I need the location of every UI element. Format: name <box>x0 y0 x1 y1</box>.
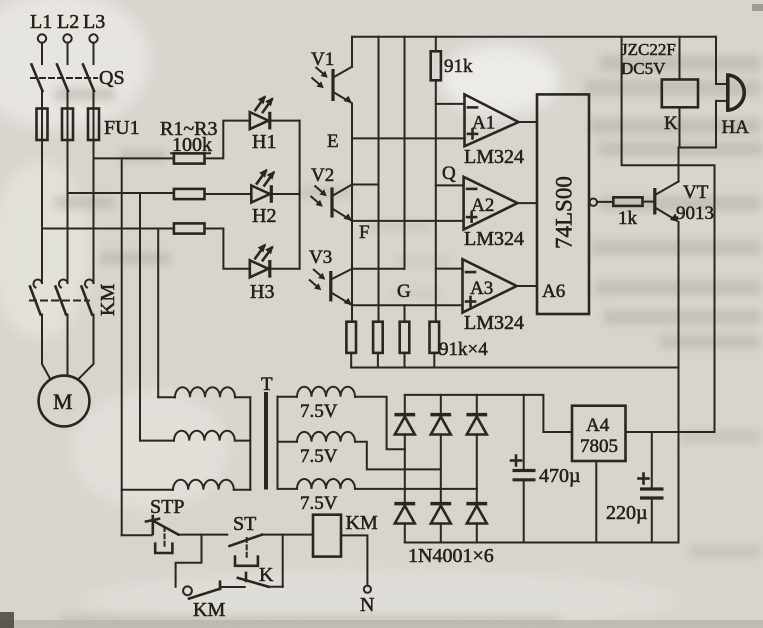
phototransistor V1 <box>312 67 353 103</box>
svg-text:H3: H3 <box>250 281 274 303</box>
svg-text:H1: H1 <box>252 131 276 153</box>
corner smudge <box>0 612 14 628</box>
wire QS pole 2 to fuse <box>67 91 69 140</box>
switch QS pole 1 blade <box>32 65 43 92</box>
button STP (stop, NC) <box>122 516 179 553</box>
svg-text:T: T <box>261 374 273 395</box>
fuse FU1 pole 1 <box>37 109 48 141</box>
node L3 terminal <box>83 11 105 43</box>
wire V2 collector jog <box>352 184 379 186</box>
svg-text:G: G <box>397 281 411 302</box>
svg-text:A1: A1 <box>472 112 495 133</box>
wire bubble to 1k <box>597 201 613 203</box>
wire L2 terminal to QS <box>67 43 69 64</box>
svg-text:ST: ST <box>233 513 256 535</box>
svg-text:FU1: FU1 <box>104 117 140 139</box>
wire KM contact 1 to motor <box>42 315 51 380</box>
wire branch 2 (L2 tap to R2) <box>68 192 174 194</box>
wire L1 terminal to QS <box>41 43 43 64</box>
wire H2 cathode to common bus <box>271 193 299 195</box>
svg-text:STP: STP <box>150 496 184 518</box>
op-amp A2 <box>464 177 518 230</box>
svg-text:V2: V2 <box>311 165 334 186</box>
wire node F to A2 + input <box>352 220 464 222</box>
contactor KM main contact 1 hook <box>33 280 42 288</box>
resistor R7 (91k pulldown 3) <box>400 322 410 368</box>
contactor KM main contact 3 blade <box>82 287 93 315</box>
svg-text:9013: 9013 <box>676 203 714 224</box>
wire bus line 1 (rail to V1 collector) <box>351 37 353 67</box>
wire branch 3 (L1 tap to R3) <box>42 228 174 230</box>
IC 74LS00 (NAND gate block) <box>537 94 589 314</box>
svg-text:KM: KM <box>97 284 119 316</box>
wire K/HA bottom junction <box>679 147 717 149</box>
wire holding branch (down-left-down) <box>176 535 202 587</box>
resistor R9 1k (base) <box>613 197 642 206</box>
value label 100k (underlined) <box>171 134 212 156</box>
IC output inverter bubble <box>590 199 597 206</box>
wire node E to A1 + input <box>352 137 465 139</box>
resistor R3 <box>174 223 205 233</box>
op-amp A3 minus input stub <box>436 268 463 270</box>
transformer T secondary winding 2 <box>278 432 356 442</box>
svg-text:L3: L3 <box>83 11 105 33</box>
svg-text:470µ: 470µ <box>539 465 581 487</box>
svg-text:1N4001×6: 1N4001×6 <box>408 545 494 567</box>
wire R1 to H1 anode <box>205 121 250 159</box>
wire bus line 4 upper (rail to 91k) <box>435 37 437 52</box>
wire VT emitter down to ground rail <box>678 222 680 543</box>
LED H1 <box>250 95 274 129</box>
phototransistor V3 <box>309 269 352 306</box>
fuse FU1 pole 2 <box>62 109 73 141</box>
svg-text:220µ: 220µ <box>606 502 648 524</box>
svg-text:HA: HA <box>722 117 750 138</box>
capacitor C2 220u <box>639 432 664 543</box>
op-amp A1 minus input stub <box>436 103 465 105</box>
svg-text:A2: A2 <box>471 195 494 216</box>
diode VD2 (top row 1N4001) <box>430 395 451 504</box>
svg-text:A4: A4 <box>586 415 610 436</box>
wire drop 1 to primary winding 3 and STP <box>121 158 123 535</box>
svg-text:KM: KM <box>193 599 225 621</box>
contact KM auxiliary (NO, self-hold) <box>183 582 245 599</box>
resistor R8 (91k pulldown 4) <box>430 322 440 368</box>
svg-text:E: E <box>327 131 339 152</box>
wire branch 1 (L3 tap to R1) <box>94 157 174 159</box>
contactor KM linkage (dashed) <box>30 300 89 302</box>
transistor VT 9013 <box>655 182 679 223</box>
svg-text:A3: A3 <box>470 278 493 299</box>
wire secondary star point <box>277 397 279 489</box>
svg-text:JZC22F: JZC22F <box>621 40 676 59</box>
wire bridge negative / ground rail <box>405 542 679 544</box>
diode VD1 (top row 1N4001) <box>394 395 415 504</box>
svg-text:M: M <box>53 389 73 414</box>
node L1 terminal <box>30 11 52 43</box>
svg-text:A6: A6 <box>542 281 565 302</box>
op-amp A3 <box>463 259 517 312</box>
contactor KM main contact 3 hook <box>85 280 94 288</box>
wire H cathode common bus <box>299 121 301 269</box>
diode VD4 (bottom row 1N4001) <box>394 504 415 543</box>
op-amp A3 output wire <box>517 285 537 287</box>
svg-text:VT: VT <box>683 182 709 203</box>
wire ST to KM coil <box>262 534 313 536</box>
svg-text:H2: H2 <box>252 205 276 227</box>
wire KM coil to N <box>341 535 367 585</box>
wire H1 cathode to common bus <box>270 120 300 122</box>
svg-text:K: K <box>259 564 274 586</box>
wire STP to ST / branch node <box>179 534 228 536</box>
diode VD5 (bottom row 1N4001) <box>430 504 451 543</box>
op-amp A2 output wire <box>518 202 538 204</box>
wire bridge positive bus <box>405 395 572 432</box>
switch QS linkage (dashed) <box>31 77 97 79</box>
wire bus line 3 (rail to V3 collector jog) <box>404 37 406 269</box>
svg-text:KM: KM <box>346 512 378 534</box>
svg-text:91k×4: 91k×4 <box>439 339 488 360</box>
wire +5V top rail <box>352 36 716 38</box>
phototransistor V2 <box>311 185 353 221</box>
wire KM contact 2 to motor <box>67 315 69 376</box>
contactor KM main contact 2 blade <box>56 287 67 315</box>
motor M <box>39 376 90 427</box>
transformer T secondary winding 1 <box>278 387 356 397</box>
switch QS pole 2 blade <box>57 65 68 92</box>
regulator A4 7805 <box>572 406 626 461</box>
svg-text:7805: 7805 <box>580 436 618 457</box>
svg-text:74LS00: 74LS00 <box>552 176 577 249</box>
svg-text:1k: 1k <box>618 208 638 229</box>
contactor coil KM <box>313 515 341 557</box>
contact K (relay K, in hold loop) <box>238 535 283 587</box>
resistor R1 <box>174 153 205 163</box>
wire R2 to H2 anode <box>205 193 252 195</box>
paper bottom edge artifact <box>0 620 763 628</box>
wire HA bottom to junction <box>715 101 717 148</box>
wire secondary 2 to bridge leg 2 <box>355 442 441 470</box>
wire phase B vertical (L2) <box>67 140 69 283</box>
wire comparator ground bus <box>351 367 678 369</box>
op-amp A2 minus input stub <box>436 184 464 186</box>
diode VD6 (bottom row 1N4001) <box>466 504 487 543</box>
svg-text:7.5V: 7.5V <box>300 493 338 514</box>
node N terminal <box>360 586 374 616</box>
buzzer HA <box>716 73 744 112</box>
wire drop 3 to primary winding 1 <box>157 229 159 398</box>
diode VD3 (top row 1N4001) <box>466 395 487 504</box>
wire primary star point <box>249 397 251 490</box>
wire VT collector up to K/HA junction <box>678 148 680 182</box>
wire 1k to VT base <box>643 201 654 203</box>
wire V3 collector jog <box>352 268 405 270</box>
svg-text:L2: L2 <box>57 11 79 33</box>
svg-text:7.5V: 7.5V <box>300 401 338 422</box>
transformer T core <box>264 392 268 490</box>
svg-text:91k: 91k <box>444 56 473 77</box>
wire L3 terminal to QS <box>93 43 95 64</box>
svg-text:L1: L1 <box>30 11 52 33</box>
wire rail to K coil <box>679 37 681 80</box>
wire bus line 3 lower stub (G to resistor 3) <box>404 305 406 321</box>
svg-text:QS: QS <box>99 67 125 89</box>
contactor KM main contact 1 blade <box>30 287 41 315</box>
wire secondary 3 to bridge leg 3 <box>355 488 477 490</box>
svg-text:K: K <box>664 113 678 134</box>
wire secondary 1 to bridge leg 1 <box>355 397 405 450</box>
svg-text:V1: V1 <box>311 49 334 70</box>
relay coil K <box>662 80 698 108</box>
op-amp A1 output wire <box>519 121 538 123</box>
svg-text:LM324: LM324 <box>464 228 524 250</box>
wire KM contact 3 to motor <box>79 315 94 379</box>
contactor KM main contact 2 hook <box>59 280 68 288</box>
transformer T primary winding 3 <box>122 480 251 490</box>
svg-text:LM324: LM324 <box>464 146 524 168</box>
wire 7805 output <box>626 431 715 433</box>
resistor R6 (91k pulldown 2) <box>373 322 383 368</box>
svg-text:N: N <box>360 594 374 616</box>
wire bus line 2 (rail to resistor 2) <box>378 37 380 322</box>
button ST (start, NO) <box>230 535 263 566</box>
wire phase C vertical (L3) <box>93 140 95 283</box>
wire bus line 1 lower (V1 emitter / E node to resistor) <box>351 103 353 322</box>
op-amp A1 <box>465 94 519 146</box>
LED H2 <box>251 169 275 203</box>
switch QS pole 3 blade <box>83 65 94 92</box>
transformer T secondary winding 3 <box>278 479 356 489</box>
svg-text:LM324: LM324 <box>464 312 524 334</box>
capacitor C1 470u <box>511 395 536 543</box>
wire rail to HA top <box>715 37 717 84</box>
svg-text:Q: Q <box>442 163 456 184</box>
wire +5V riser (7805 output to top rail) <box>622 37 715 432</box>
wire R3 to H3 anode <box>205 229 250 269</box>
wire QS pole 3 to fuse <box>93 91 95 140</box>
wire K coil to junction <box>679 107 681 147</box>
wire H3 cathode to common bus <box>270 268 300 270</box>
resistor R2 <box>174 189 205 199</box>
wire bus line 4 lower (91k to inputs and resistor 4) <box>435 80 437 321</box>
svg-text:DC5V: DC5V <box>621 59 666 78</box>
wire node G to A3 + input <box>352 304 463 306</box>
transformer T primary winding 2 <box>140 431 250 441</box>
svg-text:7.5V: 7.5V <box>300 446 338 467</box>
transformer T primary winding 1 <box>158 387 250 397</box>
wire phase A vertical (L1) <box>41 140 43 283</box>
fuse FU1 pole 3 <box>88 109 99 141</box>
wire drop 2 to primary winding 2 <box>139 193 141 441</box>
resistor R5 (91k pulldown 1) <box>346 322 356 368</box>
resistor R4 91k (pull-up) <box>431 51 441 80</box>
wire QS pole 1 to fuse <box>41 91 43 140</box>
svg-text:V3: V3 <box>309 247 332 268</box>
node L2 terminal <box>57 11 79 43</box>
wire 7805 ground pin <box>595 461 597 543</box>
svg-text:F: F <box>359 222 370 243</box>
LED H3 <box>250 244 274 278</box>
